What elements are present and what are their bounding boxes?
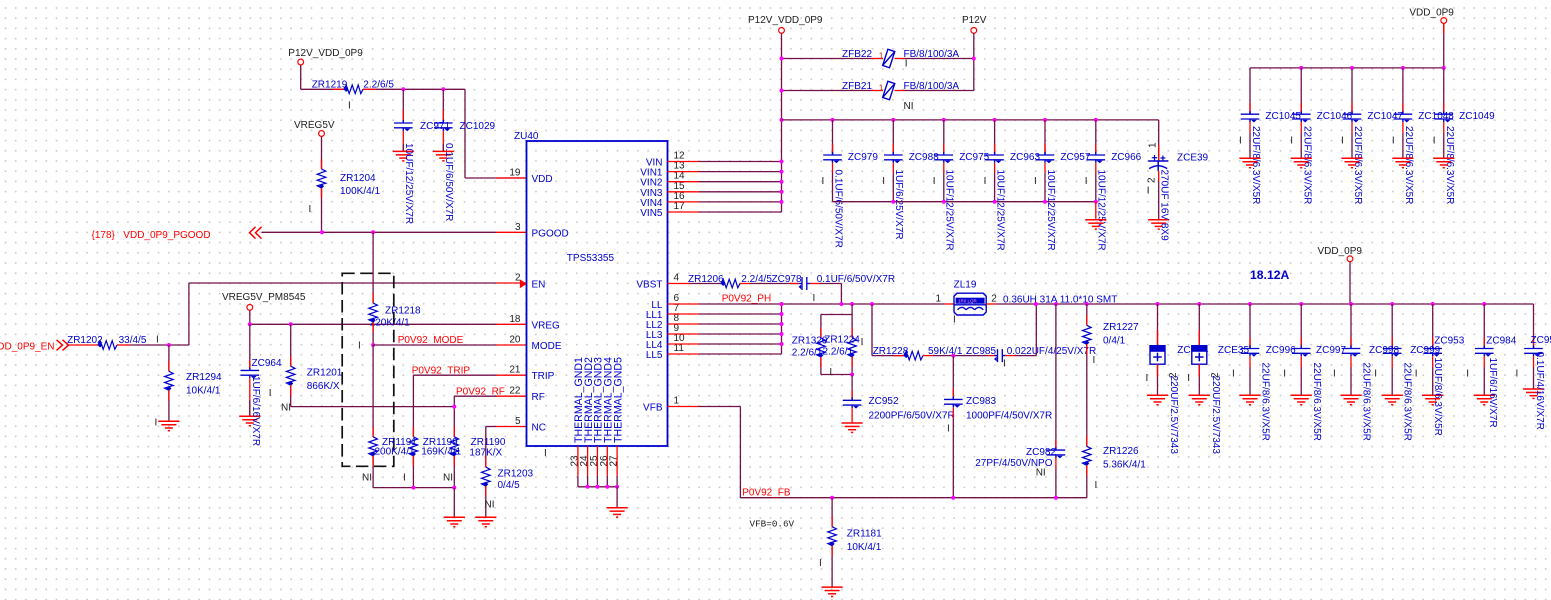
resistor ZR1201 bbox=[286, 366, 295, 386]
svg-text:1: 1 bbox=[879, 82, 884, 92]
junction ZR1201 bbox=[289, 322, 293, 326]
svg-text:17: 17 bbox=[674, 201, 686, 212]
junction bbox=[780, 302, 784, 306]
pin wire bbox=[1158, 171, 1160, 181]
wire bbox=[690, 283, 721, 285]
pin wire TRIP bbox=[497, 374, 527, 376]
pin wire EN bbox=[497, 282, 527, 284]
pin wire bbox=[1300, 356, 1302, 367]
wire bbox=[699, 406, 740, 408]
wire bbox=[851, 315, 853, 338]
capacitor ZC979 bbox=[823, 152, 842, 163]
pin wire bbox=[994, 144, 996, 154]
svg-text:I: I bbox=[309, 204, 312, 215]
junction ZC983 tap bbox=[951, 354, 955, 358]
wire VIN bus vertical bbox=[781, 33, 783, 212]
ground bbox=[1433, 158, 1454, 167]
pin wire bbox=[892, 163, 894, 173]
svg-text:1: 1 bbox=[1148, 142, 1159, 148]
wire bbox=[1044, 173, 1046, 202]
svg-text:ZC975: ZC975 bbox=[959, 152, 989, 163]
wire bbox=[1432, 304, 1434, 348]
pin wire NC bbox=[497, 426, 527, 428]
wire bbox=[168, 345, 170, 371]
pin wire bbox=[871, 90, 883, 92]
wire bbox=[372, 456, 374, 488]
svg-text:ZC1047: ZC1047 bbox=[1367, 111, 1403, 122]
capacitor ZC997 bbox=[1292, 346, 1311, 357]
svg-text:THERMAL_GND5: THERMAL_GND5 bbox=[612, 357, 624, 443]
polarized capacitor ZCE34 220UF bbox=[1192, 346, 1207, 365]
wire bbox=[1249, 367, 1251, 395]
junction bbox=[1094, 200, 1098, 204]
svg-text:I: I bbox=[1187, 373, 1190, 384]
svg-text:I: I bbox=[156, 334, 159, 345]
svg-text:ZC952: ZC952 bbox=[869, 396, 899, 407]
svg-text:I: I bbox=[1146, 373, 1149, 384]
svg-text:I: I bbox=[1034, 176, 1037, 187]
svg-text:NI: NI bbox=[443, 472, 453, 483]
svg-text:18.12A: 18.12A bbox=[1250, 268, 1289, 282]
svg-text:ZC985: ZC985 bbox=[966, 346, 996, 357]
ground bbox=[433, 151, 454, 160]
svg-text:VFB: VFB bbox=[643, 403, 663, 414]
pin wire bbox=[1086, 465, 1088, 475]
junction bbox=[1085, 302, 1089, 306]
svg-text:VREG5V: VREG5V bbox=[294, 120, 335, 131]
wire bbox=[188, 283, 190, 345]
ground bbox=[393, 151, 414, 160]
wire bbox=[1044, 120, 1046, 154]
svg-text:0/4/1: 0/4/1 bbox=[1103, 335, 1126, 346]
junction bbox=[780, 200, 784, 204]
pin wire bbox=[1198, 330, 1200, 346]
svg-text:ZR1218: ZR1218 bbox=[385, 305, 421, 316]
svg-text:I: I bbox=[1085, 176, 1088, 187]
pin wire bbox=[1300, 122, 1302, 133]
junction ZC964 bbox=[248, 322, 252, 326]
junction bbox=[780, 190, 784, 194]
wire bbox=[1015, 355, 1036, 357]
wire bbox=[577, 476, 579, 487]
pin wire bbox=[1351, 122, 1353, 133]
pin wire MODE bbox=[497, 344, 527, 346]
svg-text:ZR1181: ZR1181 bbox=[847, 528, 882, 539]
pin wire bbox=[1391, 338, 1393, 348]
svg-text:ZR1190: ZR1190 bbox=[471, 437, 506, 448]
svg-text:VREG: VREG bbox=[532, 320, 561, 331]
pin wire bbox=[1533, 338, 1535, 348]
capacitor ZC999 bbox=[1383, 346, 1402, 357]
capacitor ZC1046 bbox=[1292, 111, 1311, 122]
ground bbox=[1523, 389, 1544, 398]
svg-text:ZC983: ZC983 bbox=[966, 396, 996, 407]
wire bbox=[1443, 133, 1445, 158]
svg-text:2.2/6/1: 2.2/6/1 bbox=[792, 347, 823, 358]
wire bbox=[952, 418, 954, 498]
wire net VDD_0P9 output bus bbox=[996, 303, 1534, 305]
svg-text:ZC999: ZC999 bbox=[1410, 345, 1440, 356]
svg-text:I: I bbox=[1147, 186, 1150, 197]
wire bbox=[1300, 68, 1302, 114]
junction bbox=[1197, 302, 1201, 306]
wire bbox=[831, 498, 833, 527]
wire bbox=[587, 476, 589, 487]
port VDD_0P9 (lower) bbox=[1347, 256, 1353, 262]
svg-text:VDD: VDD bbox=[532, 174, 553, 185]
pin wire bbox=[1055, 440, 1057, 450]
wire bbox=[1483, 367, 1485, 395]
capacitor ZC957 bbox=[1036, 152, 1055, 163]
pin wire LL bbox=[668, 333, 700, 335]
pin wire bbox=[453, 427, 455, 437]
wire ZFB21 left bbox=[782, 90, 872, 92]
svg-text:22UF/8/6.3V/X5R: 22UF/8/6.3V/X5R bbox=[1260, 363, 1271, 441]
pin wire bbox=[851, 357, 853, 367]
pin wire bbox=[892, 144, 894, 154]
ferrite bead ZFB22 bbox=[883, 49, 895, 67]
junction bbox=[615, 485, 619, 489]
pin wire bbox=[820, 357, 822, 367]
wire net NC bbox=[486, 426, 497, 428]
svg-text:VBST: VBST bbox=[636, 279, 662, 290]
pin wire bbox=[1095, 144, 1097, 154]
wire net PGOOD bbox=[262, 231, 497, 233]
wire net P0V92_PH bbox=[699, 303, 945, 305]
wire VIN bbox=[699, 201, 782, 203]
dashed variant box bbox=[342, 273, 394, 466]
wire bbox=[290, 385, 292, 406]
pin wire bbox=[895, 58, 905, 60]
svg-text:I: I bbox=[269, 388, 272, 399]
svg-text:ZCE35: ZCE35 bbox=[1218, 345, 1250, 356]
wire VIN bus horizontal bbox=[782, 119, 1159, 121]
wire bbox=[168, 390, 170, 421]
junction bbox=[780, 118, 784, 122]
resistor ZR1218 bbox=[369, 303, 378, 323]
wire VDD_0P9 top bus bbox=[1250, 67, 1444, 69]
junction bbox=[780, 57, 784, 61]
wire snubber bottom bbox=[821, 374, 852, 376]
svg-text:I: I bbox=[947, 424, 950, 435]
svg-text:ZC964: ZC964 bbox=[252, 358, 282, 369]
wire bbox=[994, 173, 996, 202]
wire bbox=[1095, 173, 1097, 202]
svg-text:22UF/8/6.3V/X5R: 22UF/8/6.3V/X5R bbox=[1402, 363, 1413, 441]
svg-text:0.1UF/4/16V/X7R: 0.1UF/4/16V/X7R bbox=[1534, 352, 1545, 430]
junction bbox=[830, 496, 834, 500]
wire LL vertical bbox=[781, 304, 783, 354]
svg-text:I: I bbox=[813, 293, 816, 304]
svg-text:ZC982: ZC982 bbox=[1026, 447, 1056, 458]
svg-text:ZC971: ZC971 bbox=[420, 121, 450, 132]
wire bbox=[750, 283, 799, 285]
ground bbox=[1474, 395, 1495, 404]
resistor ZR1224 bbox=[848, 338, 857, 358]
wire bbox=[871, 304, 873, 356]
junction bbox=[831, 118, 835, 122]
junction bbox=[850, 302, 854, 306]
svg-text:P12V_VDD_0P9: P12V_VDD_0P9 bbox=[748, 15, 823, 26]
pin wire bbox=[249, 378, 251, 416]
wire bbox=[453, 396, 455, 437]
ground bbox=[1147, 395, 1168, 404]
ground bbox=[158, 421, 179, 430]
wire bbox=[851, 304, 853, 315]
pin wire bbox=[1086, 436, 1088, 446]
svg-text:0/4/5: 0/4/5 bbox=[498, 480, 521, 491]
svg-text:I: I bbox=[1516, 369, 1519, 380]
svg-text:VDD_0P9: VDD_0P9 bbox=[1318, 246, 1363, 257]
capacitor ZC975 bbox=[935, 152, 954, 163]
svg-text:1UF/6/16V/X7R: 1UF/6/16V/X7R bbox=[1487, 358, 1498, 428]
pin wire bbox=[290, 385, 292, 395]
pin wire bbox=[442, 110, 444, 122]
wire bbox=[1349, 262, 1351, 304]
wire VIN bbox=[699, 171, 782, 173]
junction bbox=[993, 200, 997, 204]
pin wire bbox=[1432, 356, 1434, 367]
wire bbox=[892, 120, 894, 154]
junction ZR1218/PGOOD bbox=[371, 230, 375, 234]
wire bbox=[1157, 304, 1159, 346]
svg-text:3: 3 bbox=[515, 222, 521, 233]
wire bbox=[301, 88, 344, 90]
wire bbox=[464, 89, 466, 178]
wire bbox=[1157, 364, 1159, 395]
wire bbox=[1198, 364, 1200, 395]
svg-text:ZC988: ZC988 bbox=[909, 152, 939, 163]
pin wire LL bbox=[668, 313, 700, 315]
wire bbox=[1198, 304, 1200, 346]
wire bbox=[442, 89, 444, 122]
wire ZFB22 left bbox=[782, 58, 872, 60]
wire bbox=[1158, 120, 1160, 161]
pin wire bbox=[1391, 356, 1393, 367]
junction bbox=[780, 342, 784, 346]
wire bbox=[453, 488, 455, 518]
wire bbox=[1351, 68, 1353, 114]
ground bbox=[842, 423, 863, 432]
svg-text:22: 22 bbox=[509, 386, 521, 397]
svg-text:18: 18 bbox=[509, 314, 521, 325]
pin wire bbox=[1249, 356, 1251, 367]
pin wire PGOOD bbox=[497, 231, 527, 233]
svg-text:I: I bbox=[953, 315, 956, 326]
svg-text:866K/X: 866K/X bbox=[307, 381, 340, 392]
wire bbox=[321, 136, 323, 169]
capacitor ZC988 bbox=[884, 152, 903, 163]
svg-text:{178}: {178} bbox=[92, 230, 116, 241]
svg-text:ZC996: ZC996 bbox=[1266, 345, 1296, 356]
wire bbox=[485, 486, 487, 517]
junction bbox=[1482, 302, 1486, 306]
capacitor ZC1047 bbox=[1343, 111, 1362, 122]
svg-text:I: I bbox=[1341, 136, 1344, 147]
svg-text:1: 1 bbox=[879, 50, 884, 60]
resistor ZR1204 bbox=[317, 169, 326, 189]
wire bbox=[1300, 304, 1302, 348]
pin wire bbox=[117, 344, 130, 346]
svg-text:I: I bbox=[358, 340, 361, 351]
pin wire bbox=[871, 58, 883, 60]
pin wire bbox=[943, 144, 945, 154]
ground bbox=[444, 517, 465, 526]
op-amp U1 IC ZU40 TPS53355 body bbox=[527, 141, 668, 446]
svg-text:NI: NI bbox=[485, 500, 495, 511]
pin wire bbox=[485, 486, 487, 496]
wire bbox=[1086, 344, 1088, 446]
wire net EN bbox=[189, 282, 497, 284]
resistor ZR1294 bbox=[165, 371, 174, 391]
resistor ZR1203 bbox=[482, 467, 491, 487]
svg-text:ZC1046: ZC1046 bbox=[1317, 111, 1353, 122]
wire bbox=[933, 355, 988, 357]
wire bbox=[465, 177, 527, 179]
pin wire bbox=[851, 328, 853, 338]
svg-text:I: I bbox=[1415, 369, 1418, 380]
svg-text:ZFB21: ZFB21 bbox=[842, 81, 872, 92]
ground bbox=[1382, 395, 1403, 404]
wire LL bbox=[699, 343, 782, 345]
svg-text:I: I bbox=[1466, 369, 1469, 380]
pin wire bbox=[1483, 356, 1485, 367]
svg-text:ZL19: ZL19 bbox=[954, 279, 977, 290]
pin wire bbox=[740, 283, 750, 285]
wire bbox=[851, 357, 853, 375]
ferrite bead ZFB21 bbox=[883, 81, 895, 99]
resistor ZR1227 bbox=[1083, 325, 1092, 345]
svg-text:ZC1029: ZC1029 bbox=[460, 121, 496, 132]
resistor ZR1181 bbox=[828, 527, 837, 547]
pin wire bbox=[412, 456, 414, 466]
svg-text:I: I bbox=[984, 176, 987, 187]
wire bbox=[1086, 465, 1088, 497]
pin wire VIN bbox=[668, 171, 700, 173]
svg-text:4: 4 bbox=[674, 273, 680, 284]
capacitor ZC953 bbox=[1423, 346, 1442, 357]
junction bbox=[942, 118, 946, 122]
svg-text:ZR1320: ZR1320 bbox=[792, 335, 828, 346]
pin wire bbox=[986, 303, 996, 305]
port VREG5V_PM8545 bbox=[247, 305, 253, 311]
svg-text:NI: NI bbox=[1036, 467, 1046, 478]
ground bbox=[1085, 220, 1106, 229]
junction bbox=[972, 57, 976, 61]
pin wire thermal bbox=[616, 446, 618, 476]
wire bbox=[1443, 68, 1445, 114]
pin wire bbox=[168, 361, 170, 371]
wire bbox=[1391, 304, 1393, 348]
pin wire VIN bbox=[668, 201, 700, 203]
wire VIN bbox=[699, 211, 782, 213]
pin wire bbox=[1533, 356, 1535, 367]
wire net RF bbox=[454, 395, 496, 397]
polarized capacitor ZCE39 bbox=[1148, 161, 1168, 171]
svg-text:270UF 16V 8X9: 270UF 16V 8X9 bbox=[1158, 170, 1169, 242]
svg-text:VFB=0.6V: VFB=0.6V bbox=[750, 519, 795, 530]
wire VIN bbox=[699, 191, 782, 193]
wire bbox=[832, 173, 834, 202]
junction bbox=[1043, 118, 1047, 122]
wire bbox=[130, 344, 189, 346]
wire bbox=[1055, 468, 1057, 498]
wire bbox=[820, 283, 841, 285]
wire bbox=[372, 345, 374, 437]
wire bbox=[1533, 304, 1535, 348]
svg-text:I: I bbox=[1095, 480, 1098, 491]
svg-text:22UF/8/6.3V/X5R: 22UF/8/6.3V/X5R bbox=[1311, 363, 1322, 441]
ground bbox=[475, 517, 496, 526]
wire bbox=[1402, 68, 1404, 114]
port VDD_0P9 (top right) bbox=[1441, 18, 1447, 24]
svg-text:ZCE39: ZCE39 bbox=[1177, 153, 1209, 164]
capacitor ZC966 bbox=[1087, 152, 1106, 163]
svg-text:I: I bbox=[1232, 369, 1235, 380]
junction bbox=[993, 118, 997, 122]
svg-text:ZC1045: ZC1045 bbox=[1265, 111, 1301, 122]
ground bbox=[1341, 158, 1362, 167]
svg-text:I: I bbox=[861, 337, 864, 348]
junction bbox=[891, 200, 895, 204]
pin wire bbox=[1300, 338, 1302, 348]
ground bbox=[1392, 158, 1413, 167]
wire bbox=[739, 407, 741, 498]
wire bbox=[442, 144, 444, 151]
ground bbox=[822, 587, 843, 596]
svg-text:I: I bbox=[155, 418, 158, 429]
svg-text:22UF/8/6.3V/X5R: 22UF/8/6.3V/X5R bbox=[1361, 363, 1372, 441]
svg-text:ZR1206: ZR1206 bbox=[688, 274, 724, 285]
svg-text:10UF/12/25V/X7R: 10UF/12/25V/X7R bbox=[1096, 170, 1107, 251]
svg-text:ZR1224: ZR1224 bbox=[824, 334, 860, 345]
pin wire bbox=[1044, 144, 1046, 154]
junction bbox=[1349, 302, 1353, 306]
svg-text:I: I bbox=[829, 367, 832, 378]
svg-text:I: I bbox=[1290, 136, 1293, 147]
capacitor ZC1029 bbox=[434, 120, 453, 131]
pin wire bbox=[1158, 145, 1160, 161]
pin wire bbox=[943, 163, 945, 173]
pin wire bbox=[1249, 122, 1251, 133]
pin wire bbox=[249, 360, 251, 370]
pin wire bbox=[372, 322, 374, 332]
wire ZFB22 right bbox=[905, 58, 974, 60]
junction bbox=[411, 486, 415, 490]
svg-text:ZC957: ZC957 bbox=[1060, 152, 1090, 163]
pin wire bbox=[1350, 338, 1352, 348]
pin wire VFB bbox=[668, 406, 700, 408]
pin wire bbox=[68, 344, 99, 346]
svg-text:LL5: LL5 bbox=[646, 350, 663, 361]
pin wire thermal bbox=[587, 446, 589, 476]
svg-text:10UF/12/25V/X7R: 10UF/12/25V/X7R bbox=[944, 170, 955, 251]
ground bbox=[1291, 158, 1312, 167]
pin wire thermal bbox=[606, 446, 608, 476]
wire bbox=[1443, 23, 1445, 68]
svg-text:ZR1227: ZR1227 bbox=[1103, 322, 1139, 333]
pin wire bbox=[945, 303, 954, 305]
svg-text:2.2/6/1: 2.2/6/1 bbox=[823, 346, 854, 357]
pin wire bbox=[372, 427, 374, 437]
wire bbox=[402, 144, 404, 151]
wire bbox=[1300, 133, 1302, 158]
pin wire bbox=[1198, 364, 1200, 377]
svg-text:2: 2 bbox=[1147, 177, 1158, 183]
pin wire bbox=[453, 456, 455, 466]
wire net P0V92_FB bbox=[740, 497, 1086, 499]
junction bbox=[780, 89, 784, 93]
